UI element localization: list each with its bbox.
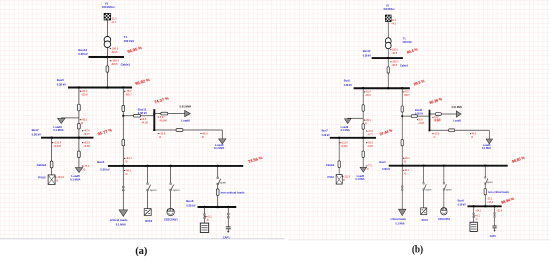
- svg-text:-/0.000: -/0.000: [434, 118, 442, 121]
- svg-text:+34.2: +34.2: [475, 209, 481, 212]
- svg-text:+32.4: +32.4: [497, 209, 503, 212]
- svg-text:+37.4: +37.4: [487, 201, 493, 204]
- svg-text:(b): (b): [412, 244, 423, 256]
- svg-text:(a): (a): [135, 246, 148, 257]
